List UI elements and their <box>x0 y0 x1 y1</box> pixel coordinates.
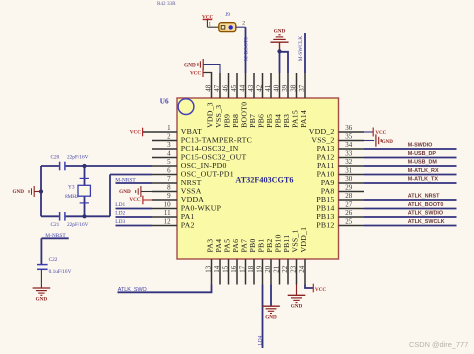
svg-text:39: 39 <box>281 84 289 92</box>
svg-text:PA2: PA2 <box>181 220 195 229</box>
svg-text:7: 7 <box>167 175 171 183</box>
svg-text:M-NRST: M-NRST <box>115 177 136 183</box>
svg-text:48: 48 <box>205 84 213 92</box>
svg-text:Y3: Y3 <box>68 185 75 191</box>
svg-text:22pF/16V: 22pF/16V <box>67 155 89 161</box>
svg-text:17: 17 <box>239 265 247 273</box>
svg-text:ATLK_SWO: ATLK_SWO <box>118 287 147 293</box>
svg-text:VCC: VCC <box>129 197 140 203</box>
svg-text:23: 23 <box>290 265 298 273</box>
svg-text:8: 8 <box>167 183 171 191</box>
svg-text:14: 14 <box>213 265 221 273</box>
svg-text:33: 33 <box>345 149 353 157</box>
svg-text:PA14: PA14 <box>299 110 308 128</box>
svg-text:10: 10 <box>164 200 172 208</box>
svg-text:27: 27 <box>345 200 353 208</box>
svg-text:GND: GND <box>291 304 303 310</box>
svg-text:AT32F403CGT6: AT32F403CGT6 <box>235 176 293 185</box>
svg-text:44: 44 <box>239 84 247 92</box>
svg-text:0.1uF/16V: 0.1uF/16V <box>49 269 72 275</box>
svg-text:40: 40 <box>273 84 281 92</box>
svg-text:13: 13 <box>205 265 213 273</box>
svg-text:37: 37 <box>298 84 306 92</box>
svg-text:J9: J9 <box>225 12 230 18</box>
svg-text:VCC: VCC <box>315 287 326 293</box>
svg-text:PB12: PB12 <box>316 220 334 229</box>
svg-text:ATLK_BOOT0: ATLK_BOOT0 <box>408 202 444 208</box>
svg-text:45: 45 <box>230 84 238 92</box>
svg-text:24: 24 <box>298 265 306 273</box>
svg-text:19: 19 <box>256 265 264 273</box>
svg-text:M-BOOT0: M-BOOT0 <box>244 37 250 61</box>
svg-text:VCC: VCC <box>375 131 386 136</box>
svg-text:GND: GND <box>184 62 196 68</box>
svg-text:ATLK_NRST: ATLK_NRST <box>408 194 440 200</box>
svg-text:C21: C21 <box>51 222 60 228</box>
svg-text:22pF/16V: 22pF/16V <box>67 222 89 228</box>
svg-text:M-SWCLK: M-SWCLK <box>298 36 304 62</box>
svg-text:34: 34 <box>345 141 353 149</box>
svg-text:M-USB_DP: M-USB_DP <box>408 151 437 157</box>
svg-text:25: 25 <box>345 217 353 225</box>
svg-text:LD2: LD2 <box>115 211 125 217</box>
svg-text:5: 5 <box>167 158 171 166</box>
svg-text:12: 12 <box>164 217 172 225</box>
svg-text:46: 46 <box>222 84 230 92</box>
svg-text:9: 9 <box>167 192 171 200</box>
svg-text:42: 42 <box>256 84 264 92</box>
svg-text:GND: GND <box>382 140 394 145</box>
svg-text:30: 30 <box>345 175 353 183</box>
svg-text:VCC: VCC <box>190 71 201 77</box>
svg-text:21: 21 <box>273 265 281 273</box>
svg-text:ATLK_SWDIO: ATLK_SWDIO <box>408 211 443 217</box>
svg-text:3: 3 <box>167 141 171 149</box>
svg-text:ATLK_SWCLK: ATLK_SWCLK <box>408 219 445 225</box>
svg-text:C20: C20 <box>51 155 60 161</box>
svg-text:31: 31 <box>345 166 353 174</box>
svg-text:28: 28 <box>345 192 353 200</box>
svg-text:VDD_1: VDD_1 <box>299 227 308 253</box>
svg-text:M-ATLK_TX: M-ATLK_TX <box>408 177 439 183</box>
svg-text:GND: GND <box>36 296 48 302</box>
svg-text:29: 29 <box>345 183 353 191</box>
svg-text:4: 4 <box>167 149 171 157</box>
svg-text:M-USB_DM: M-USB_DM <box>408 160 438 166</box>
svg-text:16: 16 <box>230 265 238 273</box>
svg-text:2: 2 <box>242 20 245 26</box>
svg-text:32: 32 <box>345 158 353 166</box>
svg-text:GND: GND <box>12 189 24 195</box>
svg-text:15: 15 <box>222 265 230 273</box>
svg-text:26: 26 <box>345 209 353 217</box>
svg-text:6: 6 <box>167 166 171 174</box>
svg-text:GND: GND <box>274 29 286 35</box>
svg-text:36: 36 <box>345 124 353 132</box>
svg-text:M-SWDIO: M-SWDIO <box>408 143 433 149</box>
svg-text:22: 22 <box>281 265 289 273</box>
svg-text:20: 20 <box>264 265 272 273</box>
svg-text:38: 38 <box>290 84 298 92</box>
svg-text:1: 1 <box>208 21 211 27</box>
svg-text:LD4: LD4 <box>258 335 264 345</box>
svg-text:11: 11 <box>164 209 171 217</box>
svg-text:1: 1 <box>167 124 171 132</box>
svg-text:18: 18 <box>247 265 255 273</box>
svg-text:GND: GND <box>265 315 277 321</box>
svg-text:M-ATLK_RX: M-ATLK_RX <box>408 168 439 174</box>
svg-text:R42 33R: R42 33R <box>157 1 176 7</box>
svg-text:35: 35 <box>345 132 353 140</box>
svg-text:47: 47 <box>213 84 221 92</box>
svg-text:LD3: LD3 <box>115 219 125 225</box>
svg-text:U6: U6 <box>160 98 169 106</box>
svg-text:8MHz: 8MHz <box>65 194 79 200</box>
svg-text:43: 43 <box>247 84 255 92</box>
svg-text:C22: C22 <box>49 257 58 263</box>
svg-text:GND: GND <box>119 189 131 195</box>
svg-text:2: 2 <box>167 132 171 140</box>
svg-text:LD1: LD1 <box>115 202 125 208</box>
svg-text:41: 41 <box>264 84 272 92</box>
svg-text:VCC: VCC <box>130 129 141 135</box>
svg-text:CSDN @dire_777: CSDN @dire_777 <box>409 340 468 349</box>
